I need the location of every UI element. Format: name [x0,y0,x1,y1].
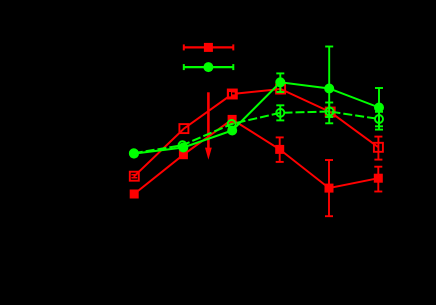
red open error bar col3 (small) [229,91,236,98]
green filled error bar col3 (hidden small) [231,126,233,135]
legend entry: green circles series [184,62,234,72]
series: green filled circles (solid line) [129,47,384,159]
series: green open circles (dashed line) [130,103,383,158]
red filled square markers [130,115,383,199]
red open line [134,89,378,176]
red filled error bar col5 [325,160,333,216]
legend entry: red squares series [184,43,234,52]
green open error bar col4 [276,105,284,120]
green open dashed line [134,112,379,154]
red filled error bar col3 (small) [229,117,235,122]
green filled error bar col6 [375,88,383,126]
green filled error bar col4 [276,73,284,92]
green filled error bar col5 (long) [325,47,333,118]
red filled error bar col4 [276,137,284,162]
red open error bar col6 [374,137,382,160]
red open square markers [130,85,383,181]
red filled line [134,119,378,194]
red open error bar col1 (tiny) [131,175,137,178]
green filled line [134,82,379,153]
green filled circle markers [129,77,384,158]
series: red filled squares (solid line) [130,115,383,216]
red open square col3 dense fill [228,90,237,99]
series: red open squares (solid line) [130,85,383,181]
green open error bar col5 [325,103,333,124]
red filled error bar col6 [374,167,382,192]
red open error bar col4 [277,85,285,93]
red downward arrow [205,92,212,160]
green open error bar col6 [375,112,383,130]
green open circle markers [130,108,383,158]
